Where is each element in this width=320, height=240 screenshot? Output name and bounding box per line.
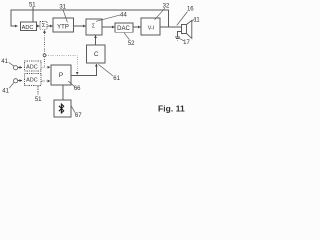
- wire speaker to ground: [178, 32, 182, 37]
- wire mic1 to ADC: [18, 66, 22, 68]
- speaker 11: [182, 20, 192, 38]
- svg-text:C: C: [94, 51, 99, 58]
- svg-text:DAC: DAC: [117, 26, 130, 32]
- label 66 leader: [68, 81, 74, 87]
- wire feedback loop from V-I output node to ADC input: [11, 10, 168, 27]
- ground 17: [175, 37, 180, 40]
- block ADC mic1 (dashed): [25, 61, 42, 71]
- svg-text:P: P: [59, 72, 63, 79]
- label 41 lower leader: [9, 83, 14, 89]
- svg-text:66: 66: [74, 86, 81, 92]
- block P (processor) 66: [51, 65, 71, 85]
- svg-text:ADC: ADC: [26, 65, 38, 71]
- label 52 leader: [124, 33, 129, 40]
- wire ADC to sigma1: [37, 25, 40, 27]
- microphone 41 upper: [14, 66, 18, 70]
- summing node sigma1 (dashed box): [40, 22, 47, 30]
- svg-text:44: 44: [120, 12, 127, 18]
- wire mic2 to ADC: [18, 80, 22, 82]
- wire P to bluetooth: [62, 85, 64, 100]
- label 17 leader: [179, 38, 184, 41]
- svg-text:61: 61: [113, 76, 120, 82]
- wire ADC1 to P (dotted): [41, 66, 50, 68]
- node junction (open circle): [43, 54, 46, 57]
- label 41 upper leader: [9, 62, 14, 66]
- label 31 leader: [63, 9, 68, 22]
- label 32 leader: [155, 8, 165, 20]
- svg-text:51: 51: [29, 2, 36, 8]
- wire C to sigma2: [95, 35, 97, 44]
- block YTP 31: [53, 18, 74, 32]
- wire V-I to speaker 16: [160, 26, 181, 28]
- wire P to C node 61: [71, 64, 96, 76]
- wire sigma2 to DAC: [102, 26, 114, 28]
- label 51 leader: [32, 7, 34, 22]
- svg-text:ADC: ADC: [22, 25, 34, 31]
- wire YTP to sigma2: [74, 25, 86, 27]
- svg-text:51: 51: [35, 97, 42, 103]
- svg-text:Σ: Σ: [92, 24, 95, 30]
- label 51 lower leader (dashed): [37, 86, 39, 94]
- wire dotted junction right and down to P-C wire: [46, 55, 77, 74]
- wire DAC to V-I: [133, 26, 140, 28]
- svg-text:41: 41: [2, 89, 9, 95]
- microphone 41 lower: [14, 79, 18, 83]
- label 11 leader: [192, 19, 194, 22]
- svg-text:32: 32: [163, 3, 170, 9]
- label 67 leader: [71, 105, 76, 113]
- block ADC mic2 (dashed): [25, 74, 42, 86]
- block DAC 52: [115, 23, 133, 32]
- svg-text:31: 31: [59, 4, 66, 10]
- block C (compensation filter): [87, 45, 106, 63]
- block sigma2 summer 44: [86, 19, 102, 35]
- svg-text:ADC: ADC: [26, 77, 38, 83]
- block V-I converter 32: [141, 18, 160, 35]
- svg-text:YTP: YTP: [57, 24, 69, 30]
- block ADC (headphone path): [21, 22, 37, 31]
- label 44 leader: [96, 15, 121, 21]
- svg-text:V-I: V-I: [148, 25, 155, 31]
- wire dotted branch up to sigma1: [44, 30, 46, 54]
- svg-text:52: 52: [128, 41, 135, 47]
- label 61 leader: [98, 64, 113, 76]
- wire dotted junction down to mic line: [44, 57, 46, 67]
- svg-text:41: 41: [1, 59, 8, 65]
- label 16 leader: [177, 12, 188, 26]
- svg-text:Fig. 11: Fig. 11: [158, 103, 185, 113]
- svg-text:17: 17: [183, 40, 190, 46]
- svg-text:16: 16: [187, 7, 194, 13]
- svg-text:67: 67: [75, 113, 82, 119]
- block bluetooth 67: [54, 100, 71, 117]
- wire sigma1 to YTP: [47, 25, 52, 27]
- wire ADC2 to P (dotted): [41, 80, 50, 82]
- svg-text:11: 11: [193, 18, 200, 24]
